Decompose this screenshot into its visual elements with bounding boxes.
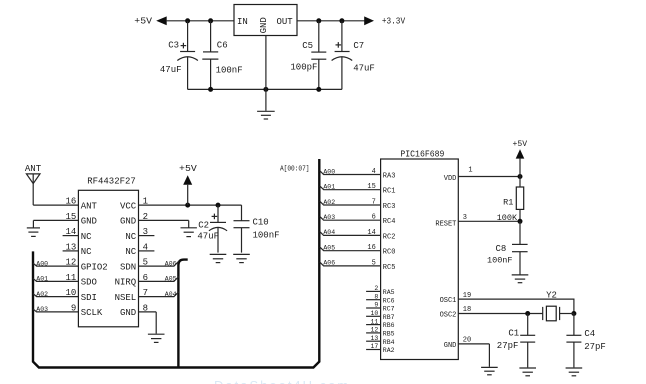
svg-text:C3: C3 (168, 41, 179, 51)
resistor R1 100K (497, 177, 524, 224)
svg-text:A02: A02 (323, 199, 335, 206)
wire +3.3V rail right (297, 20, 365, 22)
capacitor C7 47uF (polarized) (332, 21, 375, 90)
wire A05 to RC0 pin16 (320, 244, 396, 257)
wire A04 to RC2 pin14 (320, 229, 396, 242)
svg-text:A02: A02 (36, 291, 48, 298)
svg-text:C1: C1 (508, 328, 519, 338)
ground (PIC pin20) (481, 367, 498, 374)
wire pin12 GPIO2 / net A00 (33, 260, 78, 267)
svg-text:9: 9 (374, 302, 378, 309)
regulator U1 box IN/GND/OUT (234, 5, 297, 36)
svg-text:OUT: OUT (277, 17, 294, 27)
wire pin15 GND (33, 220, 78, 227)
stub pin13 RB4 (366, 335, 395, 346)
svg-text:A05: A05 (323, 245, 335, 252)
stub pin8 RC6 (366, 293, 395, 304)
svg-text:SDO: SDO (81, 278, 97, 288)
wire pin6 NIRQ / net A05 (139, 276, 179, 283)
wire pin1 VDD (444, 166, 520, 183)
capacitor C1 27pF (497, 314, 535, 368)
svg-text:A04: A04 (165, 291, 177, 298)
svg-text:NC: NC (125, 247, 136, 257)
wire A02 to RC3 pin7 (320, 198, 396, 211)
svg-text:6: 6 (372, 214, 376, 222)
wire pin7 NSEL / net A04 (139, 291, 179, 298)
svg-text:100nF: 100nF (253, 230, 280, 240)
ground (RF pin8) (148, 334, 165, 342)
bus middle riser (RF right side) (178, 260, 187, 368)
svg-text:+5V: +5V (179, 164, 197, 174)
svg-text:16: 16 (367, 244, 375, 252)
svg-text:100nF: 100nF (216, 65, 243, 75)
svg-text:+5V: +5V (134, 15, 152, 26)
svg-text:RA3: RA3 (383, 173, 396, 181)
svg-text:RC1: RC1 (383, 188, 396, 196)
svg-text:18: 18 (463, 306, 471, 314)
svg-text:RA2: RA2 (383, 347, 395, 354)
wire pin10 SDI / net A02 (33, 291, 78, 298)
svg-text:ANT: ANT (81, 201, 98, 211)
capacitor C2 47uF (polarized) (197, 205, 227, 253)
svg-text:14: 14 (367, 229, 375, 237)
svg-text:GND: GND (259, 17, 269, 33)
wire A01 to RC1 pin15 (320, 183, 396, 196)
svg-text:GPIO2: GPIO2 (81, 262, 108, 272)
svg-text:47uF: 47uF (353, 63, 375, 73)
junction dot VDD/R1 (518, 174, 523, 179)
svg-text:GND: GND (444, 342, 457, 350)
svg-text:16: 16 (65, 197, 76, 207)
capacitor C3 47uF (polarized) (160, 21, 198, 90)
wire pin3 RESET (435, 214, 520, 229)
wire A03 to RC4 pin6 (320, 214, 396, 227)
ground (C1) (519, 368, 536, 376)
svg-text:RB5: RB5 (383, 331, 395, 338)
svg-text:4: 4 (372, 168, 376, 176)
junction dots on VCC wire (185, 203, 220, 208)
capacitor C4 27pF (566, 314, 605, 368)
svg-text:100nF: 100nF (487, 256, 513, 266)
svg-text:7: 7 (372, 198, 376, 206)
wire A00 to RA3 pin4 (320, 168, 396, 181)
svg-text:15: 15 (65, 212, 76, 222)
svg-text:Y2: Y2 (546, 290, 557, 300)
wire pin11 SDO / net A01 (33, 276, 78, 283)
wire pin1 VCC to C10 corner (139, 204, 242, 206)
svg-text:RC5: RC5 (383, 264, 396, 272)
stub pin4 NC (139, 250, 155, 252)
svg-text:C8: C8 (495, 244, 506, 254)
svg-text:19: 19 (463, 292, 471, 300)
junction dot OSC1/C4 (571, 311, 576, 316)
wire pin5 SDN / net A06 (139, 260, 179, 267)
node +3.3V (output supply label) (364, 16, 405, 26)
junction dots bottom rail (208, 87, 321, 92)
svg-text:1: 1 (468, 166, 472, 174)
ground (C4) (566, 368, 583, 376)
RF left pin names (81, 201, 108, 318)
svg-text:RB7: RB7 (383, 314, 395, 321)
stub pin14 NC (63, 235, 79, 237)
svg-text:47uF: 47uF (197, 231, 219, 241)
wire pin19 OSC1 (440, 292, 574, 314)
stub pin12 RB5 (366, 327, 395, 338)
stub pin3 NC (139, 235, 155, 237)
RF right pin numbers (143, 197, 148, 314)
stub pin2 RA5 (366, 285, 395, 296)
svg-text:C5: C5 (302, 41, 313, 51)
svg-text:OSC2: OSC2 (440, 312, 457, 320)
ground (C10) (233, 254, 250, 262)
ground (C2) (210, 254, 227, 262)
capacitor C5 100pF (290, 21, 326, 90)
svg-text:3: 3 (463, 214, 467, 222)
svg-text:C2: C2 (198, 221, 209, 231)
svg-text:NSEL: NSEL (115, 293, 137, 303)
svg-text:13: 13 (370, 335, 378, 342)
wire pin9 SCLK / net A03 (33, 306, 78, 313)
stub pin9 RC7 (366, 302, 395, 313)
svg-text:RA5: RA5 (383, 289, 395, 296)
wire pin18 OSC2 (440, 306, 543, 320)
svg-text:RB4: RB4 (383, 339, 395, 346)
svg-text:GND: GND (120, 217, 136, 227)
svg-text:SCLK: SCLK (81, 308, 103, 318)
svg-text:OSC1: OSC1 (440, 297, 457, 305)
crystal Y2 (543, 290, 574, 321)
RF left pin numbers (65, 197, 76, 314)
stub pin10 RB7 (366, 310, 395, 321)
bus A[00:07] main loop (left + bottom + right riser) (33, 159, 319, 368)
junction dots top rail (185, 18, 344, 23)
svg-text:10: 10 (370, 310, 378, 317)
capacitor C10 100nF (234, 205, 280, 253)
svg-text:27pF: 27pF (584, 342, 606, 352)
svg-text:VCC: VCC (120, 201, 137, 211)
arrow +3.3V right terminal (364, 16, 374, 25)
svg-text:A03: A03 (323, 214, 335, 221)
svg-text:A06: A06 (323, 260, 335, 267)
junction dot RESET/R1/C8 (518, 219, 523, 224)
svg-text:A06: A06 (165, 260, 177, 267)
svg-text:NC: NC (125, 232, 136, 242)
svg-text:17: 17 (370, 343, 378, 350)
svg-text:11: 11 (370, 318, 378, 325)
svg-text:C7: C7 (353, 41, 364, 51)
svg-text:DataSheet4U.com: DataSheet4U.com (214, 378, 350, 384)
svg-text:+5V: +5V (513, 140, 528, 149)
ground (C8) (512, 275, 529, 283)
svg-text:27pF: 27pF (497, 341, 519, 351)
stub pin11 RB6 (366, 318, 395, 329)
svg-text:RF4432F27: RF4432F27 (87, 176, 136, 186)
svg-text:NIRQ: NIRQ (115, 278, 137, 288)
svg-text:GND: GND (81, 217, 97, 227)
svg-text:A05: A05 (165, 276, 177, 283)
svg-text:C4: C4 (584, 329, 595, 339)
antenna ANT (25, 164, 42, 205)
wire pin16 ANT (33, 204, 78, 206)
wire regulator GND stem (265, 36, 267, 111)
svg-text:8: 8 (374, 293, 378, 300)
arrow +5V left terminal (156, 16, 167, 25)
svg-text:A04: A04 (323, 229, 335, 236)
svg-text:R1: R1 (503, 197, 513, 207)
stub pin13 NC (63, 250, 79, 252)
stub pin17 RA2 (366, 343, 395, 354)
svg-text:RESET: RESET (435, 221, 456, 229)
svg-text:A01: A01 (323, 184, 335, 191)
capacitor C8 100nF (487, 221, 528, 274)
svg-text:RC0: RC0 (383, 249, 396, 257)
svg-text:RB6: RB6 (383, 322, 395, 329)
capacitor C6 100nF (202, 21, 242, 90)
ground (RF pin15) (27, 228, 40, 237)
RF right pin names (115, 201, 137, 318)
svg-text:RC6: RC6 (383, 297, 395, 304)
svg-text:NC: NC (81, 232, 92, 242)
svg-text:20: 20 (463, 337, 471, 345)
ground (regulator) (257, 111, 275, 119)
wire pin2 GND (139, 220, 189, 227)
ground (RF pin2) (181, 228, 197, 237)
svg-text:ANT: ANT (25, 164, 42, 174)
svg-text:SDI: SDI (81, 293, 97, 303)
wire bottom rail of regulator filter (188, 88, 342, 90)
svg-text:RC4: RC4 (383, 218, 396, 226)
wire pin8 GND (139, 312, 157, 334)
svg-text:RC3: RC3 (383, 203, 396, 211)
svg-text:2: 2 (374, 285, 378, 292)
svg-text:C6: C6 (217, 41, 228, 51)
svg-text:A00: A00 (323, 168, 335, 175)
svg-text:A01: A01 (36, 276, 48, 283)
svg-text:C10: C10 (253, 217, 269, 227)
svg-text:NC: NC (81, 247, 92, 257)
svg-text:GND: GND (120, 308, 136, 318)
svg-text:VDD: VDD (444, 175, 457, 183)
svg-text:100pF: 100pF (290, 63, 317, 73)
svg-text:RC7: RC7 (383, 306, 395, 313)
svg-text:SDN: SDN (120, 262, 136, 272)
node +5V (RF supply) (179, 164, 197, 205)
svg-text:47uF: 47uF (160, 65, 182, 75)
node +5V (top-left supply label) (134, 15, 166, 26)
svg-text:A[00:07]: A[00:07] (280, 166, 310, 174)
MCU PIC16F689 box (381, 149, 459, 359)
svg-text:+3.3V: +3.3V (382, 16, 406, 26)
junction dot OSC2/C1 (525, 311, 530, 316)
svg-text:IN: IN (237, 17, 248, 27)
svg-text:12: 12 (370, 327, 378, 334)
wire A06 to RC5 pin5 (320, 259, 396, 272)
svg-text:PIC16F689: PIC16F689 (400, 149, 444, 159)
svg-text:A00: A00 (36, 260, 48, 267)
svg-text:5: 5 (372, 259, 376, 267)
svg-text:RC2: RC2 (383, 233, 396, 241)
RF module RF4432F27 box (78, 176, 138, 326)
wire +5V rail left (166, 20, 234, 22)
node +5V (PIC supply) (513, 140, 528, 177)
wire pin20 GND (444, 337, 490, 367)
svg-text:15: 15 (367, 183, 375, 191)
svg-text:A03: A03 (36, 306, 48, 313)
